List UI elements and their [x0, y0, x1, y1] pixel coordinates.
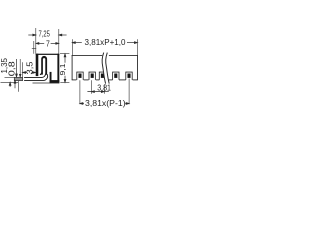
- front view right wall: [137, 55, 139, 80]
- dim 1,35 extension bottom: [1, 81, 19, 83]
- dim 1,35 extension top: [5, 76, 15, 78]
- dim 3,81x(P-1): [80, 103, 129, 105]
- housing foot bottom bar: [50, 80, 60, 83]
- housing bottom line: [33, 82, 60, 84]
- svg-text:9,1: 9,1: [58, 64, 67, 76]
- contact bend inner: [24, 74, 45, 78]
- svg-text:7,25: 7,25: [39, 30, 51, 39]
- contact free end hook: [40, 72, 42, 74]
- svg-text:3,81: 3,81: [97, 83, 111, 92]
- front view left wall: [71, 55, 73, 80]
- opening 3: [99, 72, 105, 80]
- svg-text:3,81x(P-1): 3,81x(P-1): [85, 99, 126, 108]
- break band (white): [102, 53, 109, 84]
- pin 5: [127, 74, 130, 78]
- pin 4: [114, 74, 117, 78]
- pin 1: [78, 74, 81, 78]
- housing foot left column: [50, 72, 52, 83]
- opening 1: [77, 72, 83, 80]
- leader line: [33, 41, 35, 54]
- dim 7,25 extension right: [58, 29, 60, 54]
- front view top edge: [72, 54, 103, 56]
- solder lead section (gray): [14, 77, 22, 80]
- dim 3,81: [87, 91, 108, 93]
- dim 0,8 down arrow: [16, 59, 18, 74]
- dim 3,5 extension line: [21, 62, 23, 77]
- housing right wall: [57, 54, 59, 83]
- svg-text:3,5: 3,5: [25, 61, 34, 75]
- dim 7,25: [28, 34, 66, 36]
- pin 2: [91, 74, 94, 78]
- dim 3,81xP+1,0 extensions: [71, 39, 73, 55]
- front view bottom edge segments: [72, 79, 77, 81]
- contact U spring: [41, 56, 47, 75]
- opening 4: [113, 72, 119, 80]
- dim 3,81x(P-1) extensions: [79, 80, 81, 104]
- housing top bar: [36, 54, 60, 55]
- dim 7,25 extension left: [35, 28, 37, 54]
- housing left wall: [36, 54, 39, 76]
- dim 9,1 extension bottom: [60, 82, 69, 84]
- svg-text:7: 7: [46, 40, 50, 49]
- svg-text:0,8: 0,8: [7, 61, 16, 76]
- dim 0,8 up arrow: [14, 83, 16, 88]
- pin openings: [77, 72, 132, 80]
- front view body: [72, 55, 138, 80]
- dim 1,35 up arrow: [9, 85, 11, 87]
- solder pins: [78, 74, 130, 78]
- break curve left: [102, 53, 105, 84]
- dim 7: [36, 43, 59, 45]
- dim 3,81 extensions: [90, 80, 92, 94]
- vertical line below lead: [17, 81, 19, 92]
- vertical dim line: [19, 59, 21, 74]
- dim 9,1: [64, 54, 66, 83]
- housing side view outline: [36, 54, 60, 83]
- pin 3: [101, 74, 104, 78]
- svg-text:3,81xP+1,0: 3,81xP+1,0: [85, 38, 126, 47]
- break curve right: [106, 53, 109, 84]
- opening 5: [126, 72, 132, 80]
- dim 3,5 arrows: [23, 72, 36, 74]
- dim 3,81xP+1,0: [72, 42, 137, 44]
- dim 9,1 extension top: [60, 53, 69, 55]
- contact bend outer: [24, 74, 48, 80]
- opening 2: [89, 72, 95, 80]
